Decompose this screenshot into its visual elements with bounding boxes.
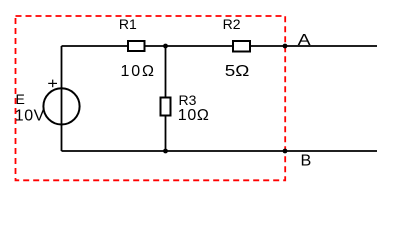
plus polarity mark of source E xyxy=(48,80,57,88)
wire: R3 branch vertical xyxy=(165,46,167,151)
resistor R3 xyxy=(161,98,171,116)
wire: top junction node to R2 xyxy=(166,45,234,47)
svg-text:R1: R1 xyxy=(119,16,137,32)
wire: source top to R1 xyxy=(62,45,129,47)
wire: left branch vertical through source E xyxy=(61,46,63,151)
svg-text:R2: R2 xyxy=(223,16,241,32)
svg-text:10Ω: 10Ω xyxy=(121,63,155,80)
svg-text:A: A xyxy=(298,32,311,49)
node B junction dot xyxy=(283,149,288,154)
svg-text:10V: 10V xyxy=(15,107,45,124)
svg-text:5Ω: 5Ω xyxy=(225,63,250,80)
svg-text:E: E xyxy=(16,91,25,107)
voltage source E (circle) xyxy=(43,88,79,124)
enclosure boundary (red dashed box) xyxy=(16,16,286,180)
wire: R2 to terminal A xyxy=(250,45,377,47)
node: bottom junction (R3/rail) xyxy=(163,149,168,154)
resistor R2 xyxy=(233,41,250,52)
wire: R1 to top junction node xyxy=(145,45,166,47)
node A junction dot xyxy=(283,44,288,49)
svg-text:R3: R3 xyxy=(179,92,197,108)
resistor R1 xyxy=(128,41,145,51)
svg-text:10Ω: 10Ω xyxy=(178,107,209,124)
wire: bottom rail from source to terminal B xyxy=(62,150,378,152)
svg-text:B: B xyxy=(301,153,312,170)
node: top junction (R1/R2/R3) xyxy=(163,44,168,49)
